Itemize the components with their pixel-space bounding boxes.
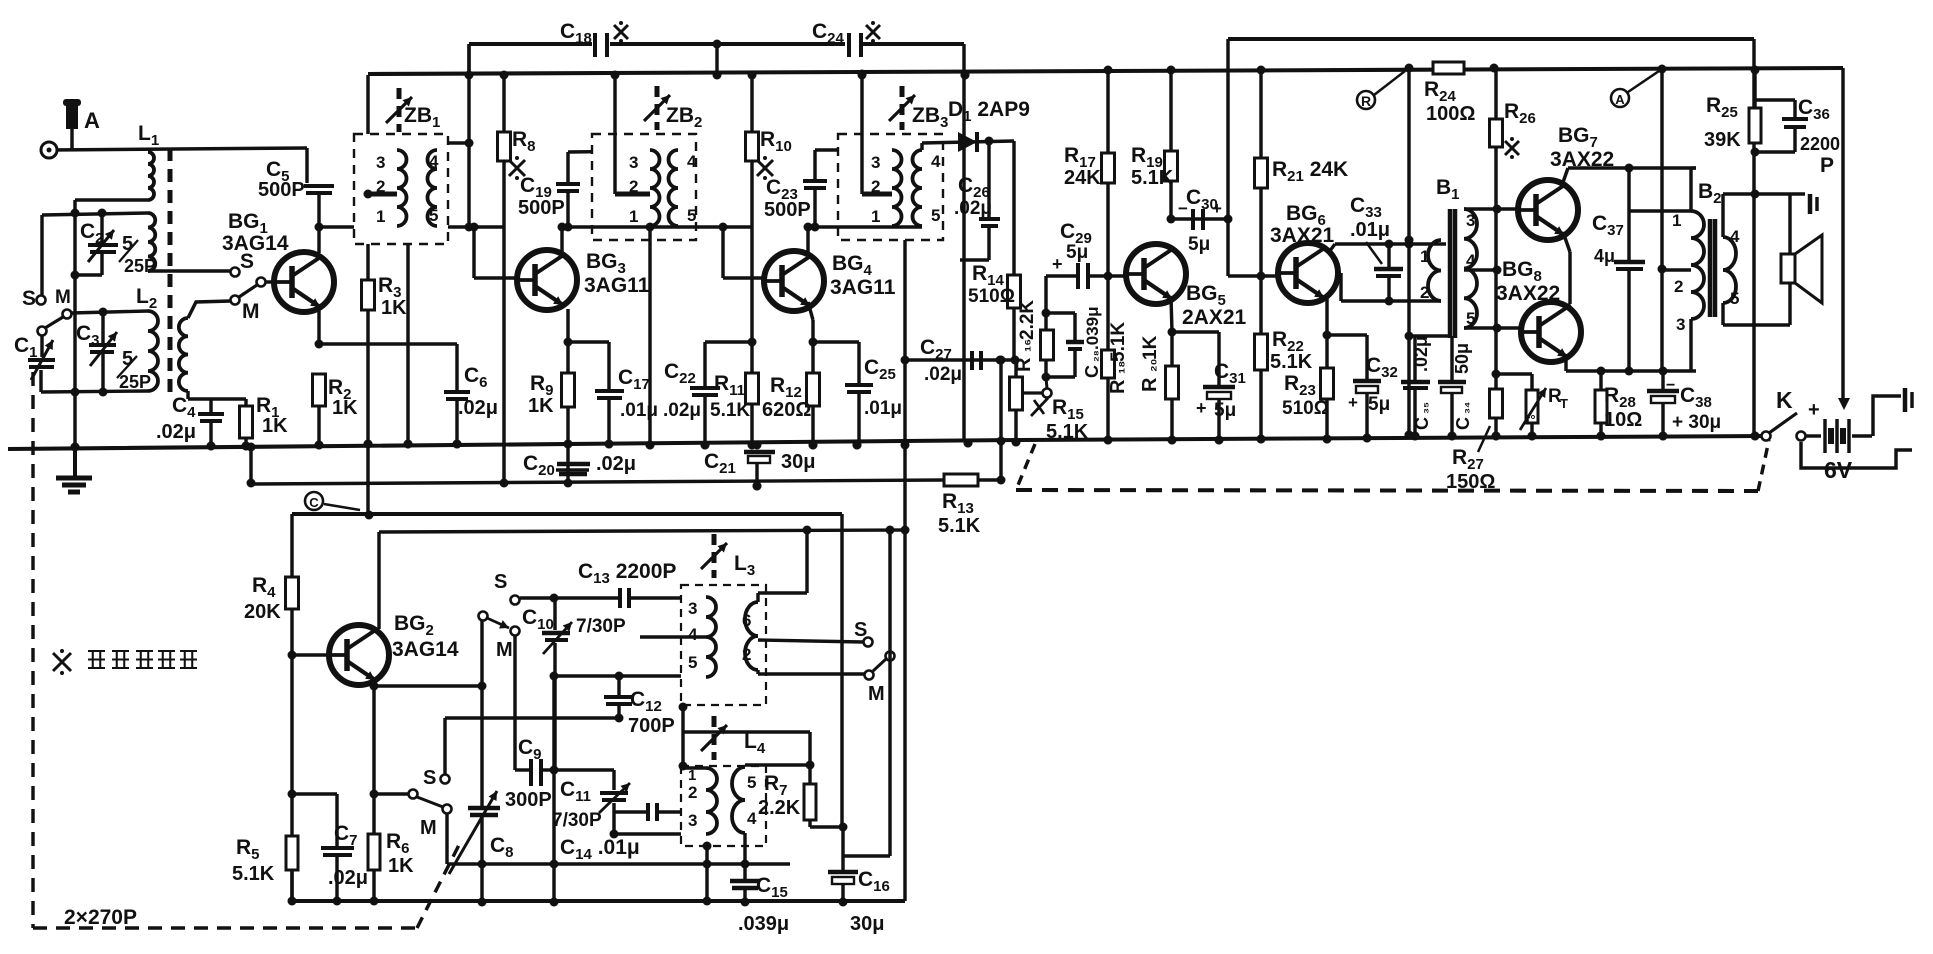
svg-text:C14 .01μ: C14 .01μ [560, 836, 640, 863]
svg-text:5.1K: 5.1K [1131, 167, 1174, 189]
svg-text:₃₄: ₃₄ [1457, 402, 1472, 414]
svg-text:30μ: 30μ [781, 451, 815, 473]
svg-text:R: R [1107, 379, 1129, 394]
svg-text:1K: 1K [262, 415, 288, 437]
svg-text:4: 4 [1730, 227, 1740, 246]
svg-text:3: 3 [1676, 315, 1685, 334]
svg-text:C: C [309, 495, 319, 510]
svg-text:4: 4 [931, 152, 941, 171]
svg-text:2: 2 [1420, 283, 1429, 302]
svg-text:20K: 20K [244, 601, 281, 623]
svg-text:.02μ: .02μ [156, 421, 196, 443]
svg-text:4: 4 [687, 152, 697, 171]
svg-text:1K: 1K [528, 395, 554, 417]
svg-text:A: A [84, 108, 100, 133]
svg-text:4μ: 4μ [1594, 246, 1615, 266]
svg-text:A: A [1615, 92, 1625, 107]
svg-text:R: R [1013, 357, 1035, 372]
svg-text:2×270P: 2×270P [64, 906, 137, 929]
svg-text:510Ω: 510Ω [1282, 398, 1329, 419]
svg-text:S: S [423, 767, 436, 789]
svg-text:50μ: 50μ [1452, 343, 1472, 374]
svg-text:2AX21: 2AX21 [1182, 306, 1247, 329]
svg-text:5: 5 [931, 206, 940, 225]
svg-text:M: M [55, 287, 71, 308]
svg-text:4: 4 [429, 152, 439, 171]
svg-text:150Ω: 150Ω [1446, 471, 1495, 493]
svg-text:2: 2 [376, 177, 385, 196]
svg-text:t°: t° [1526, 412, 1536, 427]
svg-text:R: R [1139, 377, 1161, 392]
svg-text:1: 1 [629, 207, 638, 226]
svg-text:D1 2AP9: D1 2AP9 [948, 98, 1030, 125]
svg-text:S: S [494, 571, 507, 593]
svg-text:7/30P: 7/30P [552, 810, 602, 831]
svg-text:5μ: 5μ [1066, 242, 1088, 263]
svg-text:1: 1 [871, 207, 880, 226]
svg-text:2.2K: 2.2K [758, 797, 801, 819]
svg-text:5.1K: 5.1K [1108, 322, 1129, 362]
svg-text:S: S [22, 287, 36, 310]
svg-text:700P: 700P [628, 715, 675, 737]
svg-text:.02μ: .02μ [1411, 336, 1431, 372]
svg-text:C: C [1453, 417, 1473, 430]
svg-text:5.1K: 5.1K [938, 515, 981, 537]
svg-text:3: 3 [688, 811, 697, 830]
svg-text:3: 3 [688, 599, 697, 618]
svg-text:+: + [1052, 254, 1063, 274]
svg-text:3AX21: 3AX21 [1270, 224, 1335, 247]
svg-text:.02μ: .02μ [458, 397, 498, 419]
svg-text:3AG14: 3AG14 [392, 638, 459, 661]
svg-text:2: 2 [688, 783, 697, 802]
svg-text:500P: 500P [764, 199, 811, 221]
svg-text:1K: 1K [332, 397, 358, 419]
svg-text:.02μ: .02μ [924, 364, 962, 385]
svg-text:.01μ: .01μ [1350, 219, 1390, 241]
svg-text:5: 5 [687, 206, 696, 225]
svg-text:3AG11: 3AG11 [830, 276, 896, 299]
svg-text:.01μ: .01μ [620, 400, 658, 421]
svg-text:K: K [1776, 387, 1793, 413]
svg-text:39K: 39K [1704, 129, 1741, 151]
svg-text:5: 5 [1730, 289, 1739, 308]
svg-text:3: 3 [1466, 211, 1475, 230]
svg-text:5μ: 5μ [1368, 394, 1390, 415]
svg-text:4: 4 [747, 809, 757, 828]
svg-text:6V: 6V [1824, 457, 1853, 483]
svg-text:.02μ: .02μ [596, 453, 636, 475]
svg-text:3: 3 [629, 153, 638, 172]
svg-text:30μ: 30μ [850, 913, 884, 935]
svg-text:C13 2200P: C13 2200P [578, 560, 676, 587]
svg-text:5μ: 5μ [1214, 400, 1236, 421]
svg-text:5: 5 [688, 653, 697, 672]
svg-text:M: M [242, 300, 260, 323]
svg-text:3: 3 [376, 153, 385, 172]
svg-text:1K: 1K [388, 855, 414, 877]
svg-text:.02μ: .02μ [328, 867, 368, 889]
svg-text:1K: 1K [381, 297, 407, 319]
svg-text:4: 4 [1466, 251, 1476, 270]
svg-text:25P: 25P [124, 256, 156, 276]
svg-text:R: R [1361, 93, 1371, 109]
svg-text:M: M [868, 683, 885, 705]
svg-text:1: 1 [376, 207, 385, 226]
svg-text:3AX22: 3AX22 [1496, 282, 1560, 305]
svg-text:6: 6 [742, 611, 751, 630]
svg-text:M: M [496, 639, 513, 661]
svg-text:24K: 24K [1064, 167, 1101, 189]
svg-text:S: S [854, 619, 867, 641]
svg-text:+ 30μ: + 30μ [1672, 412, 1721, 433]
svg-text:P: P [1820, 154, 1834, 177]
svg-text:₃₅: ₃₅ [1416, 402, 1431, 414]
svg-text:.039μ: .039μ [1083, 307, 1102, 351]
svg-text:+: + [1808, 399, 1820, 421]
svg-text:1: 1 [1672, 211, 1681, 230]
svg-text:−: − [1666, 377, 1675, 394]
svg-text:R21 24K: R21 24K [1272, 158, 1348, 185]
svg-text:25P: 25P [119, 372, 151, 392]
svg-text:10Ω: 10Ω [1604, 409, 1642, 431]
svg-text:3: 3 [871, 153, 880, 172]
svg-text:+: + [1348, 393, 1358, 412]
svg-text:C: C [1412, 417, 1432, 430]
svg-text:100Ω: 100Ω [1426, 103, 1475, 125]
svg-text:₂₈: ₂₈ [1086, 350, 1101, 362]
svg-text:.02μ: .02μ [663, 400, 701, 421]
svg-text:3AG14: 3AG14 [222, 232, 289, 255]
svg-text:T: T [1560, 396, 1568, 411]
svg-text:M: M [420, 817, 437, 839]
svg-text:.039μ: .039μ [738, 913, 789, 935]
svg-text:1: 1 [1420, 247, 1429, 266]
svg-text:510Ω: 510Ω [968, 286, 1015, 307]
svg-text:C: C [1082, 365, 1102, 378]
svg-text:5.1K: 5.1K [1046, 421, 1089, 443]
svg-text:5μ: 5μ [1188, 234, 1210, 255]
svg-text:500P: 500P [518, 197, 565, 219]
svg-text:5: 5 [429, 206, 438, 225]
svg-text:5: 5 [1466, 309, 1475, 328]
svg-text:.01μ: .01μ [864, 398, 902, 419]
svg-text:2200: 2200 [1800, 134, 1840, 154]
svg-text:5.1K: 5.1K [232, 863, 275, 885]
svg-text:5: 5 [747, 773, 756, 792]
svg-text:620Ω: 620Ω [762, 399, 811, 421]
svg-text:500P: 500P [258, 179, 305, 201]
svg-text:7/30P: 7/30P [576, 616, 626, 637]
svg-text:2.2K: 2.2K [1017, 300, 1038, 340]
svg-text:300P: 300P [505, 789, 552, 811]
svg-text:5.1K: 5.1K [1270, 351, 1313, 373]
svg-text:2: 2 [629, 177, 638, 196]
svg-text:5.1K: 5.1K [710, 400, 750, 421]
svg-text:+: + [1196, 398, 1207, 418]
svg-text:2: 2 [742, 645, 751, 664]
svg-text:3AG11: 3AG11 [584, 274, 650, 297]
svg-text:2: 2 [1674, 277, 1683, 296]
svg-text:1K: 1K [1140, 335, 1161, 360]
svg-text:.02μ: .02μ [954, 198, 992, 219]
svg-text:4: 4 [688, 625, 698, 644]
